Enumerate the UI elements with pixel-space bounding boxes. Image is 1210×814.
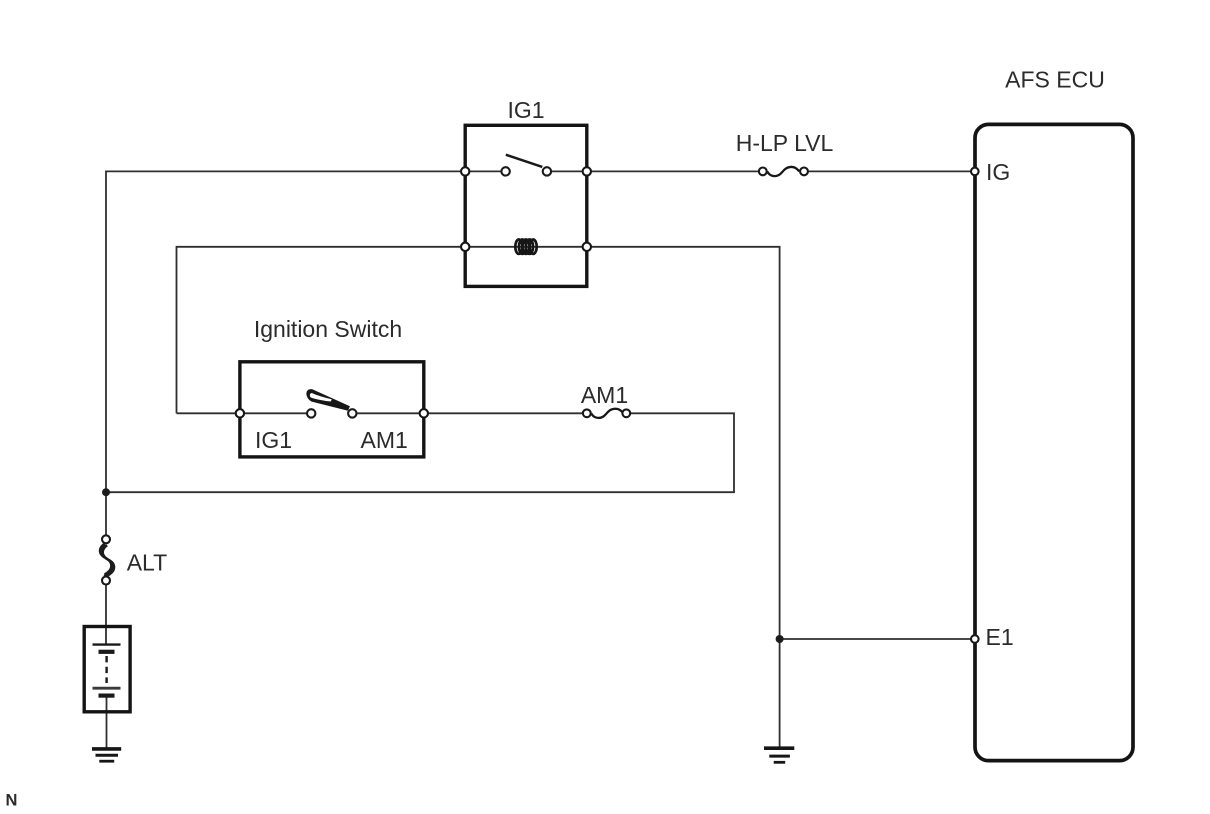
relay IG1 switch blade: [506, 155, 543, 167]
wire row A left: battery branch to relay IG1 input: [106, 171, 465, 540]
wire row B: relay coil right terminal down to node E: [587, 247, 780, 639]
ground G2 bar 1: [764, 746, 794, 750]
relay IG1 terminal bottom-right: [583, 243, 591, 251]
wire row B: branch from node V2 to relay coil left terminal: [177, 247, 466, 413]
ignition switch terminal IG1: [236, 409, 244, 417]
ignition switch blade: [306, 389, 350, 411]
battery box: [84, 627, 130, 712]
fusible link ALT terminal bottom: [102, 577, 110, 585]
svg-text:AM1: AM1: [581, 382, 628, 408]
ground G2 bar 2: [769, 755, 790, 758]
battery negative plate bottom: [99, 693, 115, 697]
relay IG1 terminal top-left: [461, 167, 469, 175]
fuse AM1 terminal left: [583, 409, 591, 417]
wire row E: ground node to ECU pin E1: [780, 638, 974, 640]
wire row A inside relay: switch contact to right terminal: [547, 170, 587, 172]
junction node at battery branch: [102, 488, 110, 496]
wire row A: fuse H-LP LVL to ECU pin IG: [808, 170, 974, 172]
ECU pin IG terminal: [971, 168, 979, 176]
relay IG1 terminal top-right: [583, 167, 591, 175]
fuse H-LP LVL terminal left: [759, 168, 767, 176]
ECU AFS box: [975, 124, 1133, 760]
svg-text:IG1: IG1: [507, 97, 544, 123]
svg-text:ALT: ALT: [127, 550, 167, 576]
svg-text:E1: E1: [986, 624, 1014, 650]
wire row B inside relay: coil leads: [465, 246, 587, 248]
fuse AM1 element: [591, 409, 623, 418]
ground G1 bar 3: [99, 760, 114, 763]
svg-text:Ignition Switch: Ignition Switch: [254, 316, 402, 342]
wire: node E down to ground G2: [779, 639, 781, 747]
svg-text:IG1: IG1: [255, 427, 292, 453]
ignition switch box: [240, 362, 424, 457]
ground G2 bar 3: [774, 761, 786, 764]
ignition switch contact left: [307, 409, 315, 417]
wire row C-D: fuse AM1 down and back to battery node: [106, 413, 734, 492]
svg-text:N: N: [6, 792, 18, 810]
svg-text:H-LP LVL: H-LP LVL: [736, 130, 834, 156]
wire: ALT link to battery positive: [105, 581, 107, 646]
relay IG1 switch contact right: [543, 167, 551, 175]
battery cell dashed link: [105, 656, 107, 683]
ground G1 bar 2: [96, 754, 119, 757]
ignition switch contact right: [348, 409, 356, 417]
battery positive plate top: [93, 643, 121, 645]
junction node at E1 ground branch: [776, 635, 784, 643]
battery positive plate bottom: [93, 687, 121, 690]
wire: battery negative to ground G1: [106, 698, 108, 749]
fuse H-LP LVL terminal right: [800, 168, 808, 176]
relay IG1 terminal bottom-left: [461, 243, 469, 251]
svg-text:AFS ECU: AFS ECU: [1005, 67, 1105, 93]
wire row A: relay output to fuse H-LP LVL: [587, 170, 759, 172]
relay IG1 box: [465, 125, 587, 286]
battery negative plate top: [99, 650, 115, 654]
fusible link ALT element: [100, 544, 114, 577]
ECU pin E1 terminal: [971, 635, 979, 643]
fuse H-LP LVL element: [767, 167, 799, 176]
wire row C inside ignition switch: contact to AM1 terminal: [352, 412, 424, 414]
ground G1 bar 1: [92, 747, 121, 751]
fusible link ALT terminal top: [102, 535, 110, 543]
wire row C: node V2 to ignition switch IG1 terminal: [177, 412, 241, 414]
relay IG1 coil: [515, 240, 536, 254]
ignition switch terminal AM1: [420, 409, 428, 417]
svg-text:IG: IG: [986, 159, 1010, 185]
wire row C: ignition switch AM1 terminal to fuse AM1: [424, 412, 583, 414]
fuse AM1 terminal right: [622, 409, 630, 417]
wire row A inside relay: left terminal to switch contact: [465, 170, 505, 172]
svg-text:AM1: AM1: [361, 427, 408, 453]
relay IG1 switch contact left: [501, 167, 509, 175]
wire row C inside ignition switch: IG1 terminal to contact: [240, 412, 311, 414]
